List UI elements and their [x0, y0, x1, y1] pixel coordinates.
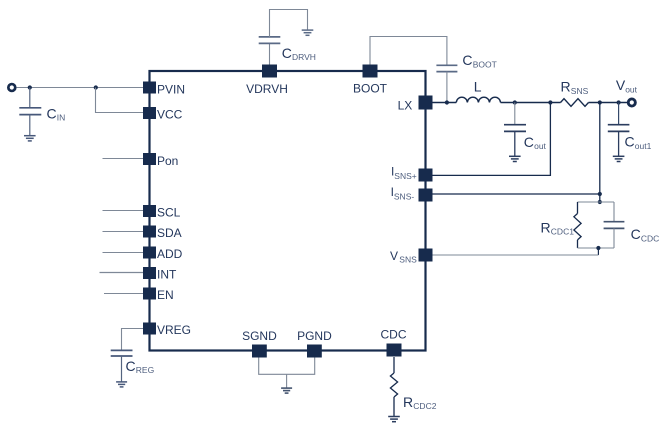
- ground Cout1: [613, 156, 625, 161]
- wire PGND ground stem: [286, 374, 288, 387]
- pin EN: [143, 288, 156, 300]
- wire VCC branch: [96, 88, 144, 113]
- svg-text:out: out: [625, 84, 637, 94]
- svg-text:out: out: [534, 141, 546, 151]
- resistor RCDC2: [390, 357, 397, 416]
- svg-text:SGND: SGND: [242, 329, 277, 343]
- wire RC bottom bar: [578, 247, 615, 249]
- pin VREG: [143, 323, 156, 335]
- pin LX: [419, 96, 433, 110]
- pin SCL: [143, 205, 156, 217]
- svg-text:SNS-: SNS-: [394, 192, 414, 202]
- svg-text:SNS: SNS: [399, 255, 417, 265]
- wire VREG branch: [122, 329, 144, 350]
- wire ISNS+: [433, 103, 551, 176]
- node ISNS- junction: [598, 192, 602, 196]
- pin ISNS-: [419, 189, 433, 202]
- wire RSNS to Vout: [589, 102, 629, 104]
- wire RSNS junction down to RC network: [599, 103, 601, 203]
- capacitor CREG: [111, 350, 133, 381]
- pin VDRVH: [262, 65, 277, 78]
- wire ISNS-: [433, 193, 600, 195]
- wire LX output line: [433, 102, 457, 104]
- svg-text:C: C: [47, 106, 57, 122]
- svg-text:BOOT: BOOT: [473, 59, 497, 69]
- node Cout junction: [513, 100, 517, 104]
- svg-text:CDC: CDC: [381, 328, 407, 342]
- capacitor Cout: [504, 103, 526, 156]
- svg-text:CDC1: CDC1: [551, 227, 574, 237]
- ground Cout: [509, 156, 521, 161]
- wire input to PVIN: [17, 87, 143, 89]
- ground CREG: [116, 382, 127, 387]
- svg-text:C: C: [524, 134, 534, 150]
- svg-text:BOOT: BOOT: [353, 82, 388, 96]
- IC U1 body: [150, 71, 426, 351]
- node CIN junction: [28, 85, 32, 89]
- svg-text:L: L: [474, 78, 482, 94]
- pin ISNS+: [419, 169, 433, 182]
- svg-text:Pon: Pon: [157, 154, 178, 168]
- capacitor CDRVH branch: [259, 10, 308, 65]
- inductor L: [456, 97, 500, 102]
- node RSNS right junction: [598, 100, 602, 104]
- wire Pon stub: [103, 158, 144, 160]
- wire EN stub: [104, 293, 143, 295]
- pin VSNS: [419, 249, 433, 262]
- svg-text:R: R: [403, 394, 413, 410]
- pin Pon: [143, 153, 156, 165]
- node VCC junction: [94, 85, 98, 89]
- svg-text:VDRVH: VDRVH: [246, 82, 288, 96]
- node CBOOT junction: [445, 100, 449, 104]
- svg-text:IN: IN: [57, 113, 66, 123]
- pin BOOT: [363, 65, 378, 78]
- svg-text:R: R: [541, 219, 551, 235]
- input terminal: [8, 84, 15, 91]
- node RC bottom junction: [596, 246, 600, 250]
- terminal Vout: [628, 99, 635, 106]
- svg-text:CDC2: CDC2: [413, 401, 436, 411]
- svg-text:DRVH: DRVH: [292, 52, 316, 62]
- capacitor CBOOT branch: [370, 37, 457, 103]
- node RC top junction: [598, 200, 602, 204]
- capacitor Cout1: [608, 103, 630, 156]
- wire SDA stub: [103, 231, 144, 233]
- wire RC top bar: [578, 201, 615, 203]
- pin SGND: [252, 345, 267, 358]
- svg-text:SNS+: SNS+: [394, 171, 416, 181]
- svg-text:out1: out1: [635, 141, 652, 151]
- svg-text:INT: INT: [157, 268, 177, 282]
- wire SGND down: [259, 358, 315, 375]
- wire SCL stub: [103, 210, 144, 212]
- svg-text:C: C: [631, 226, 641, 242]
- svg-text:C: C: [282, 45, 292, 61]
- svg-text:CDC: CDC: [641, 233, 659, 243]
- ground RCDC2: [388, 417, 400, 422]
- pin CDC: [387, 344, 402, 357]
- svg-text:C: C: [126, 358, 136, 374]
- pin SDA: [143, 226, 156, 238]
- wire VSNS: [433, 254, 599, 256]
- capacitor CCDC: [604, 202, 625, 248]
- svg-text:V: V: [390, 249, 398, 263]
- svg-text:PGND: PGND: [297, 329, 332, 343]
- svg-text:C: C: [462, 52, 472, 68]
- node ISNS+ junction: [548, 100, 552, 104]
- ground CDRVH: [302, 30, 314, 35]
- svg-text:R: R: [561, 79, 571, 95]
- ground CIN: [24, 136, 36, 141]
- svg-text:SNS: SNS: [571, 86, 589, 96]
- wire inductor to RSNS: [501, 102, 561, 104]
- resistor RCDC1: [574, 202, 581, 248]
- ground SGND PGND: [281, 388, 292, 393]
- pin PGND: [307, 345, 322, 358]
- svg-text:PVIN: PVIN: [157, 82, 185, 96]
- capacitor CIN: [19, 88, 41, 136]
- svg-text:REG: REG: [136, 365, 154, 375]
- pin PVIN: [143, 82, 156, 94]
- pin VCC: [143, 107, 156, 119]
- svg-text:ADD: ADD: [157, 247, 183, 261]
- svg-text:VREG: VREG: [157, 323, 191, 337]
- node Cout1 junction: [617, 100, 621, 104]
- svg-text:EN: EN: [157, 288, 174, 302]
- pin ADD: [143, 247, 156, 259]
- wire RC bottom to VSNS: [597, 248, 599, 255]
- pin INT: [143, 267, 156, 279]
- resistor RSNS: [561, 99, 589, 107]
- svg-text:LX: LX: [398, 98, 413, 112]
- svg-text:VCC: VCC: [157, 108, 183, 122]
- svg-text:SDA: SDA: [157, 226, 182, 240]
- wire INT stub: [100, 272, 144, 274]
- wire ADD stub: [103, 252, 144, 254]
- svg-text:C: C: [625, 134, 635, 150]
- svg-text:SCL: SCL: [157, 206, 181, 220]
